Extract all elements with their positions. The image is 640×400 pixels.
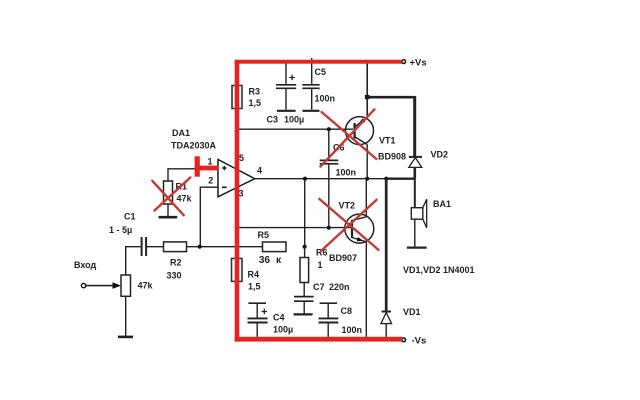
capacitor C1 plates xyxy=(141,237,143,256)
svg-text:36: 36 xyxy=(259,255,271,266)
wire op-amp output (pin 4) xyxy=(255,178,386,180)
svg-text:R3: R3 xyxy=(249,86,261,96)
svg-text:VD1,VD2 1N4001: VD1,VD2 1N4001 xyxy=(403,265,475,275)
resistor R3 body xyxy=(232,86,242,109)
wire R1 top to op-amp pin 1 xyxy=(168,169,218,181)
svg-text:100µ: 100µ xyxy=(273,324,293,334)
svg-text:C3: C3 xyxy=(267,114,279,124)
potentiometer R 47k body xyxy=(121,275,131,296)
svg-text:C5: C5 xyxy=(315,67,327,77)
ground (R1) xyxy=(159,216,178,219)
wire VT1 base line xyxy=(237,128,353,130)
wire feedback down to R5/R6 xyxy=(304,179,306,247)
svg-text:C8: C8 xyxy=(341,306,353,316)
wire input to potentiometer with arrow xyxy=(86,285,119,287)
red X over VT2 xyxy=(319,199,378,251)
diode VD2 xyxy=(409,156,422,158)
svg-text:C1: C1 xyxy=(124,212,136,222)
plus mark xyxy=(222,166,226,170)
minus mark xyxy=(222,186,227,188)
wire pin 3 down xyxy=(236,196,238,228)
node C6 top xyxy=(327,127,331,131)
svg-text:VD2: VD2 xyxy=(431,149,449,159)
wire C1 to R2 xyxy=(147,246,164,248)
wire thick to VD2 top xyxy=(367,96,415,99)
resistor R5 body xyxy=(263,242,287,252)
svg-text:4: 4 xyxy=(257,165,262,175)
svg-text:C7: C7 xyxy=(313,282,325,292)
diode VD1 xyxy=(382,311,391,313)
svg-text:R5: R5 xyxy=(258,230,270,240)
node VD1 line xyxy=(384,177,388,181)
svg-text:1,5: 1,5 xyxy=(248,281,261,291)
wire pot top to C1 xyxy=(126,247,141,275)
transistor VT1 xyxy=(346,117,374,145)
svg-text:VD1: VD1 xyxy=(403,307,421,317)
wire node up to op-amp pin 2 xyxy=(200,187,218,246)
junction square xyxy=(365,95,370,99)
svg-text:-Vs: -Vs xyxy=(412,336,427,347)
wire R1 bottom xyxy=(167,204,169,217)
svg-text:1 - 5µ: 1 - 5µ xyxy=(109,225,132,235)
svg-text:220n: 220n xyxy=(329,282,350,292)
svg-text:VT1: VT1 xyxy=(379,135,396,145)
resistor R6 body xyxy=(300,258,309,283)
svg-text:1,5: 1,5 xyxy=(249,98,262,108)
speaker BA1 xyxy=(414,179,416,208)
capacitor C3 xyxy=(285,63,287,84)
svg-text:TDA2030A: TDA2030A xyxy=(171,140,217,150)
svg-text:Вход: Вход xyxy=(74,260,97,270)
svg-text:BD907: BD907 xyxy=(329,253,357,263)
svg-text:BA1: BA1 xyxy=(433,199,451,209)
wire VD1 line down xyxy=(385,179,388,311)
svg-text:1: 1 xyxy=(208,156,213,166)
terminal -Vs xyxy=(402,338,406,342)
wire VT2 base line xyxy=(237,227,352,229)
svg-text:R2: R2 xyxy=(170,258,182,268)
node R5/R6 xyxy=(303,245,307,249)
svg-text:+Vs: +Vs xyxy=(410,58,427,69)
terminal +Vs xyxy=(402,60,406,64)
red highlight pin 1 wire (T mark) xyxy=(195,156,200,176)
capacitor C7 xyxy=(303,283,305,297)
resistor R1 body xyxy=(164,181,173,204)
svg-text:47k: 47k xyxy=(138,281,154,291)
transistor VT2 xyxy=(345,214,374,243)
red frame left vertical xyxy=(235,60,240,342)
svg-text:5: 5 xyxy=(239,153,244,163)
node VT2 base xyxy=(327,226,331,230)
svg-text:C4: C4 xyxy=(273,312,285,322)
capacitor C8 xyxy=(320,302,337,304)
wire +Vs drop to VT1 xyxy=(366,63,368,117)
ground (speaker) xyxy=(407,247,427,249)
svg-text:330: 330 xyxy=(167,270,182,280)
resistor R2 body xyxy=(164,242,187,252)
svg-text:100n: 100n xyxy=(336,167,357,177)
op-amp DA1 triangle xyxy=(218,160,255,197)
svg-text:100n: 100n xyxy=(315,93,336,103)
red frame top horizontal to +Vs xyxy=(235,60,402,64)
capacitor C5 xyxy=(311,58,313,84)
input terminal xyxy=(81,283,85,287)
capacitor C6 xyxy=(328,129,330,160)
svg-text:100n: 100n xyxy=(342,325,363,335)
svg-text:100µ: 100µ xyxy=(284,114,304,124)
svg-text:DA1: DA1 xyxy=(172,128,190,138)
red frame bottom horizontal to -Vs xyxy=(235,337,402,342)
svg-text:1: 1 xyxy=(318,260,323,270)
wire pot bottom xyxy=(125,296,127,336)
svg-text:VT2: VT2 xyxy=(339,201,356,211)
wire R6 top lead xyxy=(304,247,306,258)
svg-text:47k: 47k xyxy=(177,194,193,204)
red X over VT1 xyxy=(320,109,376,166)
wire R2 to node and on to R5 xyxy=(187,246,263,248)
svg-text:R4: R4 xyxy=(248,269,260,279)
red highlight overlay xyxy=(152,60,402,342)
svg-text:к: к xyxy=(276,255,282,266)
capacitor C4 xyxy=(248,302,266,304)
ground (pot) xyxy=(118,336,133,339)
svg-text:2: 2 xyxy=(208,175,213,185)
svg-text:BD908: BD908 xyxy=(378,151,406,161)
resistor R4 body xyxy=(232,258,243,281)
red X over R1 xyxy=(152,178,190,216)
node feedback xyxy=(303,177,307,181)
wire pin 5 up xyxy=(236,129,238,162)
node junction (R2 / pin2 feedback) xyxy=(198,245,202,249)
